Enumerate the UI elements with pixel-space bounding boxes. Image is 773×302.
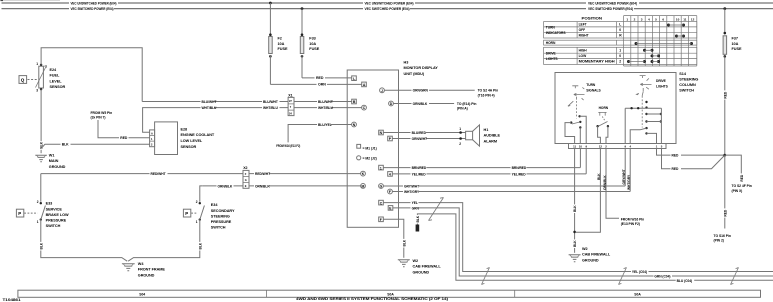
svg-text:W2: W2 bbox=[413, 259, 419, 263]
svg-text:GRY/WHT: GRY/WHT bbox=[404, 184, 419, 188]
fuse F2 bbox=[269, 2, 273, 85]
svg-text:11: 11 bbox=[573, 145, 576, 149]
wire GRY/WHT from MDU pin G to drive pin 9 bbox=[384, 184, 626, 188]
node table dots RIGHT row bbox=[675, 35, 685, 38]
svg-text:HIGH: HIGH bbox=[579, 49, 588, 53]
node drive contacts bbox=[645, 101, 662, 135]
svg-text:A: A bbox=[151, 131, 153, 135]
svg-text:E28: E28 bbox=[181, 127, 188, 131]
svg-text:BRAKE LOW: BRAKE LOW bbox=[46, 213, 69, 217]
svg-text:BLK: BLK bbox=[402, 239, 406, 246]
svg-text:BLK: BLK bbox=[573, 240, 577, 247]
svg-text:YEL (C04): YEL (C04) bbox=[632, 270, 647, 274]
switch turn signals rotary bbox=[568, 83, 602, 118]
buzzer H1 audible alarm bbox=[466, 125, 480, 146]
svg-text:2: 2 bbox=[619, 60, 621, 64]
svg-text:ORN: ORN bbox=[318, 83, 326, 87]
svg-text:LOW: LOW bbox=[579, 54, 587, 58]
node MDU pin A bbox=[362, 82, 367, 87]
op-amp U1 MDU H3 monitor display unit box bbox=[347, 70, 398, 227]
node W1 label bbox=[49, 153, 66, 169]
svg-text:T104861: T104861 bbox=[3, 298, 21, 302]
svg-text:W2: W2 bbox=[582, 247, 588, 251]
svg-text:F: F bbox=[389, 190, 391, 194]
svg-text:0: 0 bbox=[619, 54, 621, 58]
svg-text:BLU/WHT: BLU/WHT bbox=[318, 100, 333, 104]
wire crossing slash on bus at 485 bbox=[482, 268, 490, 285]
svg-text:WHT/BLU: WHT/BLU bbox=[263, 106, 279, 110]
svg-text:SENSOR: SENSOR bbox=[50, 85, 66, 89]
wire VEC SWITCHED POWER rail bbox=[2, 8, 773, 10]
svg-text:12: 12 bbox=[691, 17, 695, 21]
svg-text:(3x PIN 7): (3x PIN 7) bbox=[91, 116, 106, 120]
wire WHT/BLU from E28 pin A to X1 to MDU pin C bbox=[143, 106, 362, 132]
node MDU pin F bbox=[388, 189, 393, 194]
svg-text:SECONDARY: SECONDARY bbox=[211, 209, 235, 213]
svg-text:PRESSURE: PRESSURE bbox=[46, 219, 67, 223]
svg-text:GROUND: GROUND bbox=[582, 258, 599, 262]
svg-text:COLUMN: COLUMN bbox=[679, 83, 696, 87]
fuse F33 bbox=[300, 7, 304, 78]
node F37 value label bbox=[732, 37, 742, 51]
svg-text:ORN/WHT: ORN/WHT bbox=[412, 137, 427, 141]
node E24 pin 3 bbox=[36, 88, 42, 92]
wire ORN/BLK from E34 through X2 to MDU pin M bbox=[203, 184, 361, 188]
svg-text:10: 10 bbox=[676, 17, 680, 21]
svg-text:(PIN A): (PIN A) bbox=[457, 107, 468, 111]
node splice terminal BLK bbox=[415, 215, 420, 232]
node E33 label bbox=[46, 202, 69, 228]
svg-text:F2: F2 bbox=[278, 37, 282, 41]
svg-text:LIGHTS: LIGHTS bbox=[656, 84, 669, 88]
svg-text:1: 1 bbox=[37, 220, 39, 224]
wire steering pin10 to BRN/RED bbox=[579, 149, 581, 168]
node MDU pin C bbox=[362, 105, 367, 110]
wire BLU/YEL from MDU pin N to W16 reference bbox=[288, 123, 351, 142]
node sender gauge Q bbox=[19, 76, 38, 84]
svg-text:(PIN X): (PIN X) bbox=[732, 189, 743, 193]
svg-text:OFF: OFF bbox=[579, 28, 585, 32]
svg-text:BRN/RED: BRN/RED bbox=[512, 166, 527, 170]
node bus label BLU C04 bbox=[676, 278, 695, 283]
svg-text:TO S2 4A Pin: TO S2 4A Pin bbox=[478, 89, 499, 93]
svg-text:BLK: BLK bbox=[62, 143, 69, 147]
svg-text:SWITCH: SWITCH bbox=[46, 224, 61, 228]
svg-text:L: L bbox=[353, 77, 355, 81]
svg-text:TURN: TURN bbox=[546, 25, 556, 29]
svg-text:RED: RED bbox=[672, 167, 679, 171]
wire RED steering pin1 to junction bbox=[657, 149, 725, 158]
svg-text:MOMENTARY HIGH: MOMENTARY HIGH bbox=[579, 60, 616, 64]
sensor E28 engine coolant low level bbox=[150, 122, 178, 155]
ground W2 cab firewall near MDU bbox=[398, 260, 410, 267]
svg-text:GROUND: GROUND bbox=[49, 165, 66, 169]
svg-text:S04: S04 bbox=[139, 292, 145, 296]
wire steering pin9 to YEL/RED bbox=[585, 149, 587, 174]
wire ORN from F2 to MDU pin A bbox=[270, 83, 361, 85]
node MDU pin B bbox=[352, 99, 357, 104]
node FROM W5 reference label bbox=[91, 111, 113, 120]
svg-text:10A: 10A bbox=[309, 42, 316, 46]
svg-text:SWITCH: SWITCH bbox=[211, 226, 226, 230]
svg-text:PRESSURE: PRESSURE bbox=[211, 220, 232, 224]
wire RED junction to S2 ref bbox=[725, 155, 744, 182]
svg-text:F: F bbox=[380, 218, 382, 222]
svg-text:VEC UNSWITCHED POWER (E04): VEC UNSWITCHED POWER (E04) bbox=[71, 1, 118, 5]
svg-text:W1: W1 bbox=[49, 153, 55, 157]
diagram bottom section bar bbox=[18, 290, 761, 297]
svg-text:1: 1 bbox=[196, 220, 198, 224]
svg-text:10A: 10A bbox=[278, 42, 285, 46]
svg-text:SENSOR: SENSOR bbox=[181, 145, 197, 149]
svg-text:G: G bbox=[380, 185, 383, 189]
wire BLK from W1 to E28 pin C bbox=[41, 143, 150, 149]
svg-text:FUSE: FUSE bbox=[732, 47, 742, 51]
svg-text:YEL: YEL bbox=[412, 201, 418, 205]
wire drive lowest to pin1 bbox=[647, 133, 657, 143]
svg-text:RED: RED bbox=[723, 91, 727, 98]
node FROM W16 reference label right bbox=[621, 217, 645, 226]
svg-text:G: G bbox=[245, 178, 247, 182]
svg-text:S14: S14 bbox=[679, 72, 687, 76]
node FROM W16 reference label left bbox=[276, 144, 300, 148]
svg-text:E33: E33 bbox=[46, 202, 53, 206]
svg-text:RED: RED bbox=[120, 136, 128, 140]
svg-text:BLK: BLK bbox=[198, 242, 202, 249]
wire BLU from splice to cab bus bbox=[417, 214, 773, 280]
wire horn pin12 U bbox=[598, 126, 601, 143]
node MDU connector legend bbox=[357, 144, 377, 160]
wire BLK from MDU pin F2 to W2 ground bbox=[384, 219, 407, 257]
wire steering drive pin4d down bbox=[627, 149, 631, 192]
wire sheet top edge remnant bbox=[0, 0, 60, 1]
node MDU pin K input bbox=[361, 171, 366, 176]
svg-text:GRY/WHT: GRY/WHT bbox=[622, 169, 626, 184]
svg-text:STEERING: STEERING bbox=[679, 78, 698, 82]
wire RED/WHT from E33 through X2 to MDU pin K bbox=[41, 172, 361, 176]
node MDU pin F2 bbox=[379, 217, 384, 222]
node label BLK vertical on E24 ground wire bbox=[39, 141, 44, 150]
svg-text:10: 10 bbox=[579, 145, 583, 149]
ground W1 main ground bbox=[35, 155, 47, 162]
connector X2 bbox=[243, 166, 249, 188]
svg-text:FUEL: FUEL bbox=[50, 74, 60, 78]
svg-text:FROM W16 (E13 F2): FROM W16 (E13 F2) bbox=[276, 144, 300, 148]
node W2 label near MDU bbox=[413, 259, 442, 275]
svg-text:TO S2 4F Pin: TO S2 4F Pin bbox=[732, 184, 752, 188]
wire YEL from MDU pin C2 to cab bus bbox=[384, 201, 773, 272]
svg-text:LIGHTS: LIGHTS bbox=[546, 57, 559, 61]
node MDU pin 4 bbox=[388, 172, 393, 177]
svg-text:GROUND: GROUND bbox=[413, 271, 430, 275]
wire RED from F33 to MDU pin L bbox=[302, 77, 352, 79]
svg-text:TURN: TURN bbox=[586, 83, 596, 87]
node MDU pin G bbox=[379, 184, 384, 189]
svg-text:BLK: BLK bbox=[39, 242, 43, 249]
svg-text:LOW LEVEL: LOW LEVEL bbox=[181, 139, 203, 143]
wire from E24 pin3 down to W1 ground bbox=[40, 89, 42, 153]
svg-text:RED: RED bbox=[723, 209, 727, 216]
svg-text:BRN/RED: BRN/RED bbox=[412, 166, 427, 170]
svg-text:WHT/BLU: WHT/BLU bbox=[318, 106, 334, 110]
node table dots LOW row bbox=[651, 54, 661, 57]
svg-text:BLU/WHT: BLU/WHT bbox=[202, 100, 217, 104]
svg-text:4: 4 bbox=[389, 173, 391, 177]
node F2 value label bbox=[278, 37, 288, 51]
svg-text:WHT/GRY: WHT/GRY bbox=[627, 174, 631, 190]
node W4 label bbox=[138, 262, 166, 278]
svg-text:VEC SWITCHED POWER (E04): VEC SWITCHED POWER (E04) bbox=[71, 7, 115, 11]
node TO E14 reference label bbox=[457, 102, 477, 111]
wire GRN from MDU pin E to cab bus bbox=[393, 206, 773, 276]
node MDU pin J bbox=[380, 88, 385, 93]
node E24 pin 1 bbox=[36, 62, 42, 66]
svg-text:H1: H1 bbox=[484, 128, 489, 132]
node E34 label bbox=[211, 203, 235, 229]
wire turn pin11 U bbox=[565, 123, 575, 144]
svg-text:POSITION: POSITION bbox=[582, 16, 603, 20]
svg-text:0: 0 bbox=[619, 28, 621, 32]
node F33 value label bbox=[309, 37, 319, 51]
wire ORN/GRN from MDU pin J to S2 ref bbox=[385, 89, 475, 93]
svg-text:ORN/GRN: ORN/GRN bbox=[413, 89, 429, 93]
svg-text:= M1 (J1): = M1 (J1) bbox=[363, 147, 377, 151]
svg-text:ORN/BLK: ORN/BLK bbox=[413, 102, 428, 106]
wire BLK steering pin11 to W2 bbox=[572, 149, 577, 253]
svg-text:BLU/RED: BLU/RED bbox=[412, 131, 427, 135]
svg-text:DRIVE: DRIVE bbox=[656, 79, 667, 83]
svg-text:DRIVE: DRIVE bbox=[546, 51, 557, 55]
wire RED from F37 down to junction bbox=[723, 56, 728, 156]
wire BLU/WHT from E24 loop to X1 to MDU pin B bbox=[142, 100, 351, 104]
svg-text:CAB FIREWALL: CAB FIREWALL bbox=[582, 253, 611, 257]
fuse F37 bbox=[723, 7, 727, 58]
relay S14 steering column switch box bbox=[555, 73, 676, 144]
svg-text:HORN: HORN bbox=[546, 41, 556, 45]
svg-text:FROM W16 Pin: FROM W16 Pin bbox=[621, 217, 645, 221]
wire drive bottom to pin4d bbox=[630, 128, 646, 143]
wire crossing slash on YEL GRN BLU bbox=[429, 198, 444, 221]
wire BLK steering pin12 joins ground bbox=[576, 149, 601, 233]
svg-text:GRN (C04): GRN (C04) bbox=[654, 275, 670, 279]
node MDU pin N bbox=[352, 122, 357, 127]
svg-text:FROM W5 Pin: FROM W5 Pin bbox=[91, 111, 113, 115]
svg-text:4WD AND 6WD SERIES II SYSTEM F: 4WD AND 6WD SERIES II SYSTEM FUNCTIONAL … bbox=[296, 297, 448, 301]
ground W4 front frame bbox=[122, 264, 135, 271]
svg-text:SERVICE: SERVICE bbox=[46, 207, 63, 211]
wire ORN/BLK steering pin2 to W16 ref bbox=[603, 149, 619, 219]
svg-text:J: J bbox=[381, 89, 383, 93]
wire horn pin2 U bbox=[606, 126, 608, 143]
wire drive taps bbox=[647, 114, 661, 122]
svg-text:SIGNALS: SIGNALS bbox=[586, 88, 601, 92]
node turn contacts bbox=[570, 115, 582, 129]
svg-text:TO (E14) Pin: TO (E14) Pin bbox=[457, 102, 477, 106]
svg-text:BLU/WHT: BLU/WHT bbox=[263, 100, 278, 104]
svg-text:AUDIBLE: AUDIBLE bbox=[484, 134, 501, 138]
node TO S2 4F reference label bbox=[732, 184, 752, 193]
node bus label YEL C04 bbox=[631, 269, 649, 274]
svg-text:STEERING: STEERING bbox=[211, 214, 230, 218]
svg-text:P: P bbox=[185, 211, 188, 216]
transistor Q1 switch E33 service brake low pressure bbox=[16, 174, 45, 224]
node table dots LEFT row bbox=[667, 24, 685, 27]
wire drive row A to pin9d bbox=[625, 108, 661, 143]
diagram POSITION truth table bbox=[544, 16, 697, 66]
svg-text:1: 1 bbox=[459, 127, 461, 131]
svg-text:SWITCH: SWITCH bbox=[679, 89, 694, 93]
node MDU pin M input bbox=[361, 184, 366, 189]
svg-text:2: 2 bbox=[459, 142, 461, 146]
wire crossing slash on bus at 734 bbox=[731, 268, 739, 285]
svg-text:ORN/BLK: ORN/BLK bbox=[218, 184, 233, 188]
svg-text:(E13 PIN F2): (E13 PIN F2) bbox=[621, 222, 640, 226]
wire BLU/RED from MDU pin N2 to alarm bbox=[384, 127, 466, 135]
svg-text:11: 11 bbox=[683, 17, 686, 21]
wire drive bus B to pin5 bbox=[660, 108, 662, 143]
svg-text:E24: E24 bbox=[50, 68, 58, 72]
wire VEC UNSWITCHED POWER rail bbox=[2, 2, 773, 4]
svg-text:RED/WHT: RED/WHT bbox=[151, 172, 166, 176]
svg-text:GROUND: GROUND bbox=[138, 274, 155, 278]
wire ORN/BLK from MDU pin D to E14 ref bbox=[394, 102, 455, 106]
node S14 label bbox=[679, 72, 698, 93]
svg-text:X1: X1 bbox=[288, 93, 292, 97]
svg-text:UNIT (MDU): UNIT (MDU) bbox=[404, 72, 425, 76]
svg-text:INDICATORS: INDICATORS bbox=[546, 31, 567, 35]
transistor Q2 switch E34 secondary steering pressure bbox=[183, 186, 204, 224]
connector X1 bbox=[288, 93, 294, 115]
node MDU pin 1 bbox=[379, 165, 384, 170]
svg-text:M: M bbox=[362, 184, 365, 188]
svg-text:MONITOR DISPLAY: MONITOR DISPLAY bbox=[404, 66, 439, 70]
svg-text:1: 1 bbox=[36, 62, 38, 66]
connector S14 strip bbox=[569, 144, 667, 149]
svg-text:RED: RED bbox=[316, 76, 324, 80]
wire turn pin10 bbox=[579, 128, 581, 144]
svg-text:BLU/YEL: BLU/YEL bbox=[318, 123, 332, 127]
svg-text:VEC SWITCHED POWER (E04): VEC SWITCHED POWER (E04) bbox=[365, 7, 411, 11]
svg-text:RED: RED bbox=[740, 174, 744, 181]
wire RED steering pin5 to junction diagonal bbox=[662, 149, 725, 172]
svg-text:E34: E34 bbox=[211, 203, 219, 207]
sensor E24 fuel level sender body bbox=[36, 66, 47, 89]
svg-text:RIGHT: RIGHT bbox=[579, 34, 589, 38]
svg-text:2: 2 bbox=[196, 200, 198, 204]
svg-text:BLK: BLK bbox=[416, 215, 420, 222]
switch horn bbox=[596, 106, 609, 128]
node TO S2 reference label bbox=[478, 89, 499, 98]
wire crossing slash on bus at 622 bbox=[619, 268, 627, 285]
svg-text:3: 3 bbox=[36, 89, 38, 93]
svg-text:(PIN 2): (PIN 2) bbox=[714, 239, 724, 243]
svg-text:LEVEL: LEVEL bbox=[50, 79, 63, 83]
svg-text:ORN/BLK: ORN/BLK bbox=[255, 184, 270, 188]
svg-text:VEC SWITCHED POWER (E04): VEC SWITCHED POWER (E04) bbox=[588, 7, 634, 11]
svg-text:P: P bbox=[18, 211, 21, 216]
svg-text:RED/WHT: RED/WHT bbox=[255, 172, 270, 176]
svg-text:FUSE: FUSE bbox=[278, 47, 288, 51]
wire YEL/RED from MDU pin 4 to steering pin 9 bbox=[393, 172, 587, 176]
svg-text:1: 1 bbox=[380, 166, 382, 170]
svg-text:S0A: S0A bbox=[634, 292, 641, 296]
wire RED from W5 ref to E28 middle pin bbox=[98, 120, 150, 140]
svg-text:Q: Q bbox=[21, 77, 25, 82]
wire BRN/RED from MDU pin 1 to steering pin 10 bbox=[384, 166, 581, 170]
svg-text:WHT/GRY: WHT/GRY bbox=[404, 190, 420, 194]
node MDU pin E bbox=[388, 206, 393, 211]
switch drive lights rotary bbox=[636, 76, 669, 128]
wire turn pin9 jog bbox=[580, 116, 587, 143]
node MDU pin P bbox=[388, 136, 393, 141]
svg-text:FRONT FRAME: FRONT FRAME bbox=[138, 268, 166, 272]
svg-text:FUSE: FUSE bbox=[309, 47, 319, 51]
node E28 label bbox=[181, 127, 215, 148]
svg-text:CAB FIREWALL: CAB FIREWALL bbox=[413, 265, 442, 269]
svg-text:F37: F37 bbox=[732, 37, 738, 41]
node table dots HORN row bbox=[635, 42, 694, 45]
node E24 label bbox=[50, 68, 66, 89]
wire steering drive pin9d down bbox=[622, 149, 626, 187]
svg-text:WHT/BLU: WHT/BLU bbox=[202, 106, 218, 110]
svg-text:BLK: BLK bbox=[573, 205, 577, 212]
svg-text:10A: 10A bbox=[732, 42, 739, 46]
wire ORN/WHT from MDU pin P to alarm bbox=[393, 137, 466, 146]
svg-text:ORN/BLK: ORN/BLK bbox=[603, 175, 607, 190]
svg-text:1: 1 bbox=[619, 49, 621, 53]
svg-text:(T16 PIN 4): (T16 PIN 4) bbox=[478, 94, 495, 98]
ground W2 cab firewall near switch bbox=[569, 255, 581, 262]
svg-text:MAIN: MAIN bbox=[49, 159, 59, 163]
svg-text:= M2 (J2): = M2 (J2) bbox=[363, 156, 377, 160]
svg-text:2: 2 bbox=[37, 200, 39, 204]
svg-text:12: 12 bbox=[599, 145, 603, 149]
svg-text:ALARM: ALARM bbox=[484, 140, 497, 144]
svg-text:BLK: BLK bbox=[597, 173, 601, 180]
node MDU pin D bbox=[389, 101, 394, 106]
svg-text:S0A: S0A bbox=[387, 292, 394, 296]
svg-text:L: L bbox=[619, 23, 621, 27]
svg-text:F33: F33 bbox=[309, 37, 315, 41]
svg-text:GRN: GRN bbox=[412, 206, 420, 210]
svg-text:BLU (C04): BLU (C04) bbox=[677, 279, 693, 283]
wire BLK from E33 to W4 bbox=[39, 220, 128, 262]
svg-text:RED: RED bbox=[672, 154, 679, 158]
svg-text:W4: W4 bbox=[138, 262, 145, 266]
svg-text:YEL/RED: YEL/RED bbox=[412, 172, 427, 176]
wire BLK from E34 to W4 bbox=[128, 220, 202, 262]
node table dots MOMENTARY row bbox=[627, 60, 660, 63]
node MDU pin C2 bbox=[379, 200, 384, 205]
node MDU pin L bbox=[352, 76, 357, 81]
node bus label GRN C04 bbox=[654, 273, 673, 278]
svg-text:ENGINE COOLANT: ENGINE COOLANT bbox=[181, 133, 215, 137]
wire RED junction down to S16 ref bbox=[723, 155, 728, 228]
node H3 title label bbox=[404, 61, 439, 76]
svg-text:HORN: HORN bbox=[599, 106, 609, 110]
node table dots HIGH row bbox=[643, 49, 654, 52]
node MDU pin N2 bbox=[379, 130, 384, 135]
svg-text:VEC UNSWITCHED POWER (E04): VEC UNSWITCHED POWER (E04) bbox=[588, 1, 638, 5]
node W2 label near switch bbox=[582, 247, 611, 263]
svg-text:LEFT: LEFT bbox=[579, 23, 587, 27]
svg-text:YEL/RED: YEL/RED bbox=[512, 172, 527, 176]
svg-text:VEC UNSWITCHED POWER (E04): VEC UNSWITCHED POWER (E04) bbox=[365, 1, 415, 5]
node H1 label bbox=[484, 128, 501, 144]
svg-text:TO S16 Pin: TO S16 Pin bbox=[714, 234, 731, 238]
node TO S16 reference label bbox=[714, 234, 731, 243]
wire from E24 pin1 up over to BLU/WHT drop bbox=[41, 48, 142, 102]
